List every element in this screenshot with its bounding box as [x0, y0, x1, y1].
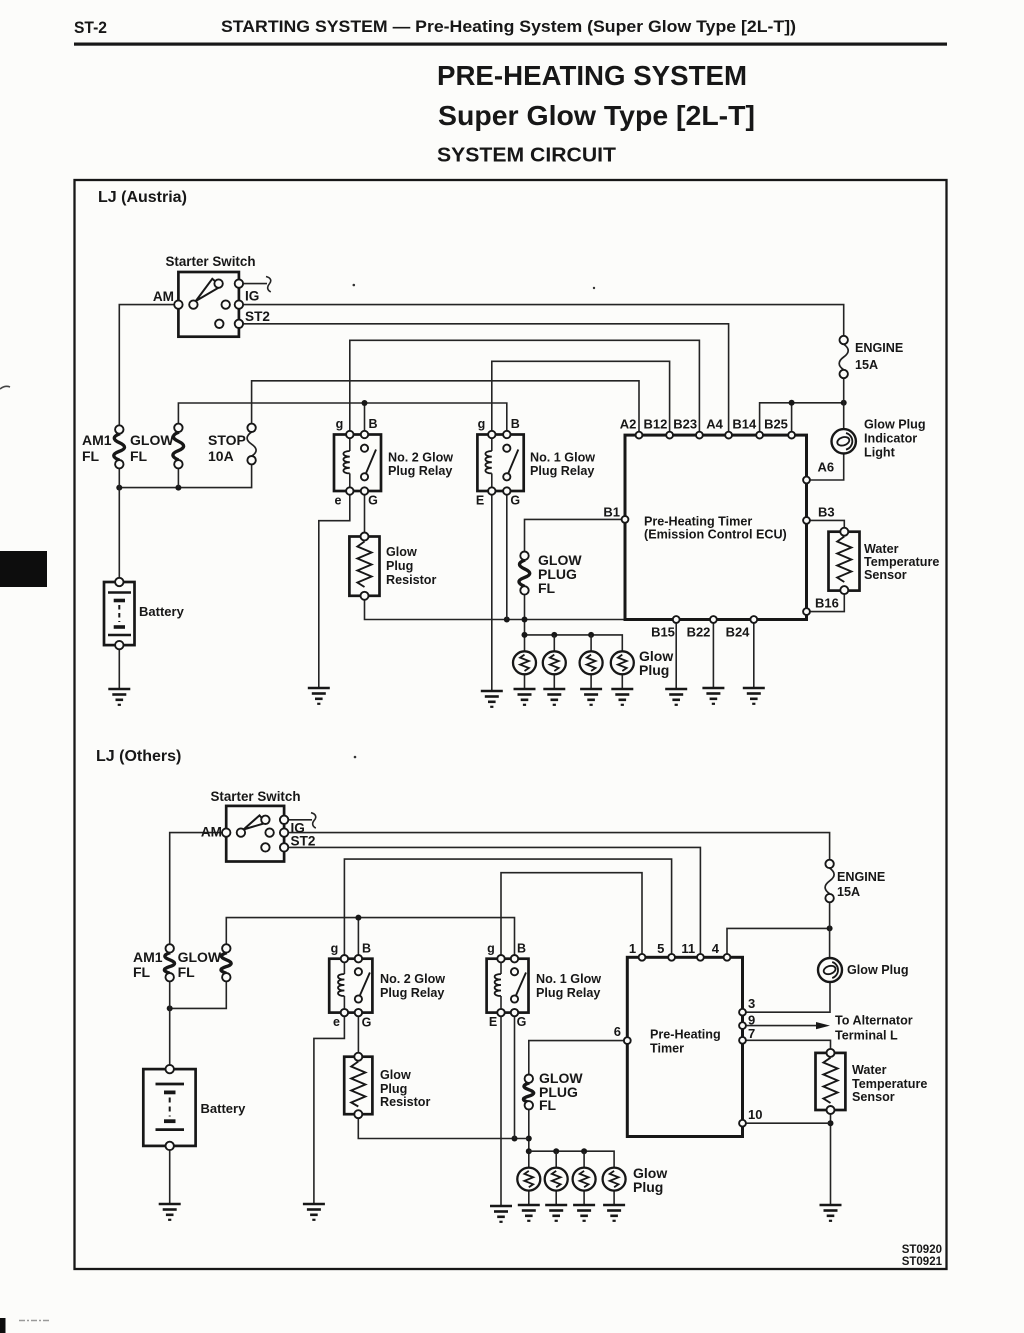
svg-text:Timer: Timer — [650, 1042, 684, 1056]
svg-text:B24: B24 — [726, 625, 751, 640]
ground battery — [159, 1204, 181, 1220]
glow plug resistor — [344, 1053, 372, 1119]
timer terminal 5 — [668, 954, 675, 961]
svg-text:LJ (Austria): LJ (Austria) — [98, 189, 187, 206]
wire glow plug 2 ground stub — [555, 1191, 557, 1205]
glow plug 3 — [573, 1168, 596, 1191]
fusible link GLOW PLUG FL — [519, 552, 530, 595]
svg-text:Plug: Plug — [386, 559, 413, 573]
junction dot glow bus 3 — [588, 632, 594, 638]
svg-text:B22: B22 — [687, 625, 711, 640]
svg-text:7: 7 — [748, 1026, 755, 1041]
ground glow plug 2 — [545, 1205, 567, 1221]
svg-text:Plug Relay: Plug Relay — [388, 464, 452, 478]
ground B15 — [665, 689, 687, 705]
battery — [104, 578, 135, 650]
wire sensor to timer B16 — [807, 590, 845, 612]
wire timer B15 to ground — [675, 620, 677, 690]
svg-text:Pre-Heating: Pre-Heating — [650, 1028, 721, 1042]
scan black bar left margin — [0, 551, 47, 587]
terminal lever top contact — [261, 816, 269, 824]
ground glow plug 2 — [543, 689, 565, 705]
wire ENGINE fuse to indicator light — [843, 374, 845, 429]
header rule — [74, 43, 947, 46]
svg-text:B1: B1 — [603, 505, 620, 520]
wire GLOW FL to relay B bus — [226, 918, 514, 959]
svg-text:Glow: Glow — [380, 1068, 411, 1082]
wire branch to relay2 B — [364, 403, 366, 435]
svg-text:ST2: ST2 — [245, 309, 270, 324]
wire relay2 e jog to ground — [314, 1013, 345, 1204]
junction dot glow bus 1 — [522, 632, 528, 638]
svg-text:e: e — [333, 1015, 340, 1029]
timer terminal 7 — [739, 1037, 746, 1044]
svg-text:GLOW: GLOW — [130, 432, 174, 448]
svg-text:E: E — [476, 494, 484, 508]
junction dot sensor wire at 10 — [828, 1120, 834, 1126]
timer terminal A4 — [725, 432, 732, 439]
wire glow plug 4 ground stub — [621, 674, 623, 689]
svg-text:6: 6 — [614, 1024, 621, 1039]
svg-text:G: G — [368, 494, 378, 508]
timer terminal B16 — [803, 608, 810, 615]
svg-text:e: e — [335, 494, 342, 508]
svg-text:11: 11 — [681, 941, 695, 956]
timer terminal B23 — [696, 432, 703, 439]
junction dot glow bus 2 — [551, 632, 557, 638]
svg-text:ENGINE: ENGINE — [855, 341, 903, 355]
junction dot B25 jog — [789, 400, 795, 406]
junction dot FL at glow bus — [526, 1148, 532, 1154]
timer terminal B24 — [750, 616, 757, 623]
svg-text:Plug: Plug — [380, 1082, 407, 1096]
terminal IG inner contact — [265, 828, 273, 836]
wire glow plug 2 stub — [553, 635, 555, 651]
glow plug 2 — [545, 1168, 568, 1191]
svg-text:g: g — [487, 942, 495, 956]
svg-text:Resistor: Resistor — [386, 573, 436, 587]
svg-text:FL: FL — [538, 580, 556, 596]
svg-text:Temperature: Temperature — [852, 1077, 927, 1091]
svg-text:No. 1 Glow: No. 1 Glow — [530, 451, 595, 465]
glow plug 4 — [611, 651, 634, 674]
wire timer 10 — [743, 1122, 831, 1124]
timer terminal 10 — [739, 1120, 746, 1127]
wire timer 6 to glow plug FL — [529, 1041, 628, 1079]
svg-text:Temperature: Temperature — [864, 555, 939, 569]
relay No.1 — [477, 431, 523, 495]
glow plug 2 — [543, 651, 566, 674]
terminal AM inner contact — [237, 828, 245, 836]
svg-text:Light: Light — [864, 446, 896, 460]
relay No.2 — [334, 431, 381, 495]
ground relay2 e — [303, 1204, 325, 1220]
fusible link GLOW PLUG FL — [523, 1075, 533, 1110]
glow plug 1 — [517, 1168, 540, 1191]
water temperature sensor — [829, 528, 860, 594]
junction dot bus at relay1 G — [512, 1136, 518, 1142]
timer terminal 6 — [624, 1037, 631, 1044]
timer terminal 4 — [724, 954, 731, 961]
svg-text:B12: B12 — [643, 417, 667, 432]
svg-text:g: g — [336, 417, 344, 431]
svg-text:10: 10 — [748, 1107, 762, 1122]
wire glow plug FL down to plug 1 — [524, 590, 526, 651]
wire relay1 G down — [514, 1013, 516, 1139]
relay No.2 — [329, 955, 372, 1016]
wire glow plug 2 ground stub — [553, 674, 555, 689]
svg-text:B: B — [368, 417, 377, 431]
starter switch continuation squiggle — [239, 277, 271, 292]
wire AM1 FL to battery — [169, 977, 171, 1069]
svg-text:B25: B25 — [764, 417, 788, 432]
wire glow plug 1 ground stub — [528, 1191, 530, 1205]
svg-text:B16: B16 — [815, 596, 839, 611]
svg-text:1: 1 — [629, 941, 636, 956]
junction dot glow bus 2 — [553, 1148, 559, 1154]
ground glow plug 3 — [580, 689, 602, 705]
schematic border frame — [75, 180, 947, 1269]
svg-text:g: g — [478, 417, 486, 431]
terminal ST2 — [280, 843, 288, 851]
terminal switch top edge — [235, 279, 243, 287]
wire relay2 G to resistor — [364, 491, 366, 537]
svg-text:G: G — [362, 1016, 372, 1030]
timer terminal B3 — [803, 517, 810, 524]
glow plug resistor — [349, 533, 379, 600]
svg-text:A6: A6 — [818, 460, 835, 475]
wire resistor bottom bus — [358, 1114, 529, 1138]
timer terminal 3 — [739, 1009, 746, 1016]
svg-text:B3: B3 — [818, 505, 835, 520]
timer terminal B15 — [673, 616, 680, 623]
fuse STOP 10A — [247, 424, 256, 465]
junction dot bottom bus at GLOW FL — [175, 485, 181, 491]
svg-text:G: G — [517, 1015, 527, 1029]
svg-text:B15: B15 — [651, 625, 675, 640]
arrowhead to alternator — [816, 1022, 830, 1029]
starter switch lever — [196, 279, 221, 301]
wire relay2 g to timer B23 — [350, 340, 700, 435]
ground relay2 e — [308, 688, 330, 704]
wire indicator light to timer A6 — [807, 454, 844, 481]
svg-text:Sensor: Sensor — [864, 568, 907, 582]
svg-text:A4: A4 — [706, 417, 723, 432]
fusible link AM1 FL — [164, 944, 174, 981]
svg-text:B: B — [511, 417, 520, 431]
svg-text:AM: AM — [153, 289, 174, 304]
svg-text:Plug: Plug — [633, 1179, 663, 1195]
junction dot bottom bus at AM1 — [167, 1005, 173, 1011]
wire ST2 feed (switch ST2 to timer A4) — [239, 324, 729, 435]
svg-text:AM: AM — [201, 825, 222, 840]
svg-text:Plug Relay: Plug Relay — [530, 464, 594, 478]
junction dot bottom bus at AM1 — [116, 485, 122, 491]
ground battery — [108, 689, 130, 705]
terminal ST2 inner contact — [215, 320, 223, 328]
glow plug 1 — [513, 651, 536, 674]
terminal AM — [174, 300, 182, 308]
svg-text:Battery: Battery — [139, 604, 185, 619]
svg-text:A2: A2 — [620, 417, 637, 432]
svg-text:FL: FL — [130, 448, 148, 464]
svg-text:Terminal L: Terminal L — [835, 1029, 898, 1043]
pre-heating timer ECU box — [625, 435, 807, 619]
wire relay1 G down — [506, 491, 508, 620]
timer terminal A2 — [636, 432, 643, 439]
wire relay1 E to ground — [491, 491, 493, 691]
svg-text:ST2: ST2 — [291, 834, 316, 849]
wire battery to ground — [169, 1146, 171, 1204]
wire IG feed (switch IG to ENGINE fuse) — [284, 833, 830, 864]
wire glow plug 2 stub — [555, 1151, 557, 1167]
ground glow plug 3 — [573, 1205, 595, 1221]
relay No.1 — [487, 955, 529, 1016]
junction dot jog at ENGINE line — [827, 925, 833, 931]
svg-text:AM1: AM1 — [133, 949, 163, 965]
svg-text:Plug Relay: Plug Relay — [380, 986, 444, 1000]
svg-text:Water: Water — [864, 542, 899, 556]
svg-text:No. 1 Glow: No. 1 Glow — [536, 972, 601, 986]
wire relay1 g to timer 1 — [501, 873, 642, 959]
timer terminal B12 — [666, 432, 673, 439]
ground B22 — [702, 688, 724, 704]
svg-text:Super Glow Type [2L-T]: Super Glow Type [2L-T] — [438, 100, 755, 131]
wire glow plug bus — [529, 1151, 614, 1167]
ground glow plug 1 — [518, 1205, 540, 1221]
wire timer B25 up — [791, 403, 793, 435]
svg-text:ENGINE: ENGINE — [837, 870, 885, 884]
ground sensor — [820, 1205, 842, 1221]
svg-text:STARTING SYSTEM — Pre-Heating: STARTING SYSTEM — Pre-Heating System (Su… — [221, 18, 796, 36]
glow plug 4 — [603, 1168, 626, 1191]
wire AM feed (switch AM to AM1 FL) — [119, 305, 178, 430]
wire timer B14 jog to ENGINE line — [760, 403, 844, 435]
wire AM feed (switch AM to AM1 FL) — [170, 833, 227, 949]
wire timer B24 to ground — [753, 620, 755, 689]
svg-text:Battery: Battery — [201, 1101, 247, 1116]
starter switch box — [178, 272, 239, 337]
svg-text:ST0921: ST0921 — [902, 1256, 943, 1268]
svg-text:ST-2: ST-2 — [74, 18, 107, 37]
starter switch continuation squiggle — [284, 813, 316, 828]
wire timer B22 to ground — [712, 620, 714, 689]
svg-text:AM1: AM1 — [82, 432, 112, 448]
timer terminal B14 — [756, 432, 763, 439]
svg-text:E: E — [489, 1015, 497, 1029]
timer terminal 11 — [697, 954, 704, 961]
glow plug indicator light — [832, 429, 856, 453]
wire GLOW FL bottom bus — [170, 977, 227, 1008]
svg-text:ST0920: ST0920 — [902, 1244, 942, 1256]
svg-text:(Emission Control ECU): (Emission Control ECU) — [644, 528, 787, 542]
fuse ENGINE 15A — [825, 860, 834, 903]
svg-text:Water: Water — [852, 1063, 887, 1077]
wire sensor to ground — [830, 1110, 832, 1205]
svg-text:FL: FL — [539, 1097, 557, 1113]
svg-text:g: g — [331, 942, 339, 956]
terminal lever top contact — [214, 279, 222, 287]
wire glow plug 3 ground stub — [590, 674, 592, 689]
svg-text:Indicator: Indicator — [864, 432, 917, 446]
junction dot bus at FL — [522, 617, 528, 623]
ground glow plug 4 — [603, 1205, 625, 1221]
fusible link AM1 FL — [114, 425, 125, 468]
wire glow plug 3 stub — [583, 1151, 585, 1167]
terminal IG — [235, 300, 243, 308]
svg-text:B: B — [362, 942, 371, 956]
wire glow plug 3 stub — [590, 635, 592, 651]
scan black square bottom left — [0, 1318, 6, 1333]
glow plug 3 — [580, 651, 603, 674]
junction dot glow bus 3 — [581, 1148, 587, 1154]
svg-text:Glow: Glow — [386, 545, 417, 559]
svg-text:To Alternator: To Alternator — [835, 1014, 913, 1028]
wire glow plug 3 ground stub — [583, 1191, 585, 1205]
fusible link GLOW FL — [173, 424, 184, 469]
svg-text:FL: FL — [133, 964, 151, 980]
junction dot jog at ENGINE line — [841, 400, 847, 406]
timer terminal 9 — [739, 1022, 746, 1029]
svg-text:STOP: STOP — [208, 432, 246, 448]
wire relay1 g to timer B12 — [492, 361, 670, 435]
wire relay1 E to ground — [500, 1013, 502, 1206]
scan speck between diagrams — [354, 756, 357, 759]
terminal switch top edge — [280, 816, 288, 824]
svg-text:B: B — [517, 942, 526, 956]
timer terminal B25 — [788, 432, 795, 439]
wire glow plug FL down to plug 1 — [528, 1105, 530, 1167]
svg-text:Sensor: Sensor — [852, 1090, 895, 1104]
svg-text:10A: 10A — [208, 448, 234, 464]
svg-text:G: G — [510, 494, 520, 508]
terminal ST2 — [235, 320, 243, 328]
svg-text:5: 5 — [657, 941, 664, 956]
terminal ST2 inner contact — [261, 843, 269, 851]
water temperature sensor — [816, 1049, 846, 1114]
fusible link GLOW FL — [221, 944, 231, 981]
wire GLOW FL to relay B bus — [178, 403, 506, 435]
svg-text:SYSTEM CIRCUIT: SYSTEM CIRCUIT — [437, 145, 616, 167]
terminal AM — [222, 828, 230, 836]
svg-text:Glow Plug: Glow Plug — [847, 963, 909, 977]
junction dot relay2 B bus — [362, 400, 368, 406]
wire timer 9 to alternator arrow — [743, 1025, 818, 1027]
svg-text:Glow Plug: Glow Plug — [864, 418, 926, 432]
starter switch box — [226, 806, 284, 862]
wire IG feed (switch IG to ENGINE fuse) — [239, 305, 844, 340]
svg-text:No. 2 Glow: No. 2 Glow — [380, 972, 445, 986]
wire glow plug 4 ground stub — [613, 1191, 615, 1205]
ground glow plug 4 — [611, 689, 633, 705]
fuse ENGINE 15A — [839, 336, 848, 378]
svg-text:Plug Relay: Plug Relay — [536, 986, 600, 1000]
wire timer B1 to glow plug FL — [525, 519, 626, 555]
timer terminal B1 — [622, 516, 629, 523]
starter switch lever — [244, 815, 267, 829]
svg-text:Pre-Heating Timer: Pre-Heating Timer — [644, 515, 752, 529]
timer terminal B22 — [710, 616, 717, 623]
wire AM1 FL to battery — [118, 464, 120, 582]
wire relay2 G to resistor — [357, 1013, 359, 1057]
ground glow plug 1 — [514, 689, 536, 705]
timer terminal A6 — [803, 477, 810, 484]
wire ENGINE fuse to glow plug lamp — [829, 898, 831, 957]
scan dashes bottom left — [19, 1320, 49, 1322]
pre-heating timer box — [627, 957, 742, 1136]
svg-text:4: 4 — [712, 941, 720, 956]
svg-text:B23: B23 — [673, 417, 697, 432]
svg-text:Starter Switch: Starter Switch — [210, 789, 300, 804]
svg-text:Plug: Plug — [639, 662, 669, 678]
scan mark top left — [0, 386, 10, 389]
terminal IG inner contact — [222, 300, 230, 308]
svg-text:B14: B14 — [732, 417, 757, 432]
wire relay2 e jog to ground — [319, 491, 350, 688]
svg-text:15A: 15A — [855, 358, 878, 372]
wire battery to ground — [118, 645, 120, 689]
scan speck right of title — [593, 287, 595, 289]
junction dot relay2 B bus — [355, 915, 361, 921]
wire timer B3 to sensor — [807, 520, 845, 531]
scan speck near switch 1 — [353, 284, 356, 287]
wire resistor bottom bus to timer B15 — [365, 596, 677, 620]
wire STOP fuse bottom — [119, 460, 251, 487]
terminal AM inner contact — [189, 300, 197, 308]
svg-text:Resistor: Resistor — [380, 1095, 430, 1109]
wire STOP fuse to timer A2 — [252, 381, 639, 435]
svg-text:Starter Switch: Starter Switch — [165, 254, 255, 269]
terminal IG — [280, 828, 288, 836]
junction dot FL at resistor bus — [526, 1136, 532, 1142]
svg-text:3: 3 — [748, 996, 755, 1011]
glow plug lamp — [818, 958, 842, 982]
wire timer 7 to sensor — [743, 1040, 831, 1053]
svg-text:GLOW: GLOW — [178, 949, 222, 965]
wire glow plug bus — [525, 635, 623, 651]
junction dot bus at relay1 G — [504, 617, 510, 623]
ground relay1 E — [481, 691, 503, 707]
wire GLOW FL bottom — [177, 464, 179, 487]
svg-text:No. 2 Glow: No. 2 Glow — [388, 451, 453, 465]
wire ST2 feed (switch ST2 to timer 11) — [284, 847, 700, 957]
svg-text:15A: 15A — [837, 885, 860, 899]
battery — [143, 1065, 195, 1150]
svg-text:IG: IG — [245, 289, 259, 304]
wire glow plug 1 ground stub — [524, 674, 526, 689]
svg-text:FL: FL — [178, 964, 196, 980]
ground B24 — [743, 688, 765, 704]
svg-text:PRE-HEATING SYSTEM: PRE-HEATING SYSTEM — [437, 60, 747, 91]
wire branch to relay2 B — [357, 918, 359, 959]
timer terminal 1 — [639, 954, 646, 961]
ground relay1 E — [490, 1206, 512, 1222]
wire relay2 g to timer 5 — [344, 859, 671, 959]
wire timer 4 jog to ENGINE line — [727, 928, 830, 957]
svg-text:FL: FL — [82, 448, 100, 464]
svg-text:LJ (Others): LJ (Others) — [96, 748, 181, 765]
wire glow plug lamp to timer 3 — [743, 982, 831, 1012]
